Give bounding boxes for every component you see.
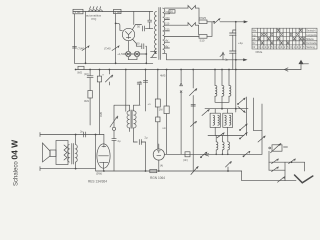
svg-text:6363a: 6363a xyxy=(256,51,263,54)
svg-text:110: 110 xyxy=(165,23,170,26)
svg-text:um: um xyxy=(163,127,166,130)
svg-text:50: 50 xyxy=(137,25,141,29)
svg-text:4M5: 4M5 xyxy=(160,74,166,78)
svg-text:(nF): (nF) xyxy=(183,158,188,162)
svg-text:0M1: 0M1 xyxy=(84,99,90,103)
svg-text:125: 125 xyxy=(165,28,170,31)
svg-text:2μ: 2μ xyxy=(118,139,121,143)
svg-text:(7)40: (7)40 xyxy=(78,47,85,51)
svg-text:Deutschl.: Deutschl. xyxy=(306,30,316,33)
svg-text:2μ: 2μ xyxy=(145,136,148,140)
svg-text:50: 50 xyxy=(170,10,174,14)
svg-text:2n: 2n xyxy=(80,130,84,134)
svg-text:4V: 4V xyxy=(165,45,168,48)
svg-text:50: 50 xyxy=(137,42,141,46)
svg-text:+1,50: +1,50 xyxy=(117,52,125,56)
svg-text:+2μ: +2μ xyxy=(238,41,243,45)
svg-text:0M2: 0M2 xyxy=(77,71,82,74)
svg-text:1M: 1M xyxy=(159,108,163,112)
svg-text:RGN 1064: RGN 1064 xyxy=(150,176,165,180)
svg-text:2μ: 2μ xyxy=(225,58,229,62)
svg-text:Kurzwelle: Kurzwelle xyxy=(306,42,317,45)
svg-text:Langwelle: Langwelle xyxy=(306,34,317,37)
svg-text:(5W): (5W) xyxy=(96,172,102,176)
svg-text:4V: 4V xyxy=(165,40,168,43)
svg-text:(10): (10) xyxy=(84,72,89,76)
svg-text:1 90: 1 90 xyxy=(75,10,81,14)
svg-text:P/Q: P/Q xyxy=(92,17,98,21)
svg-text:2 90: 2 90 xyxy=(115,10,121,14)
svg-text:Stellung: Stellung xyxy=(306,46,315,49)
svg-text:Mittelw.: Mittelw. xyxy=(306,38,314,41)
svg-text:S10: S10 xyxy=(200,39,205,43)
svg-text:(7)40: (7)40 xyxy=(104,47,111,51)
svg-text:Nr: Nr xyxy=(253,46,256,49)
svg-text:(4): (4) xyxy=(160,165,163,168)
svg-text:150: 150 xyxy=(165,17,170,20)
svg-text:Mt: Mt xyxy=(253,38,256,41)
svg-text:P625: P625 xyxy=(200,16,207,20)
svg-text:0M5: 0M5 xyxy=(99,111,103,117)
svg-text:220: 220 xyxy=(165,11,170,14)
svg-text:RES 134/364: RES 134/364 xyxy=(88,180,107,184)
